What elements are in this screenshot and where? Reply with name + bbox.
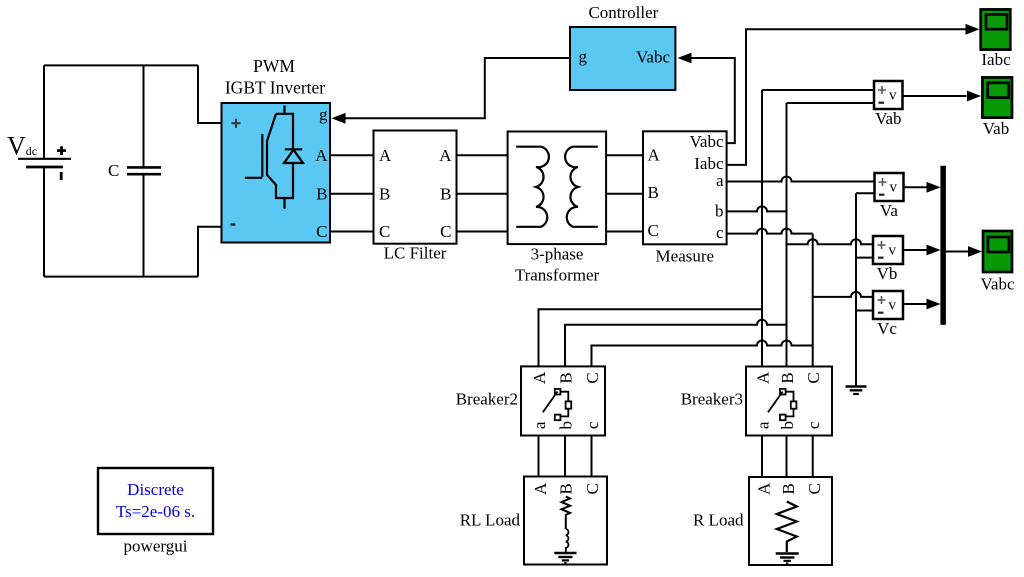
svg-text:Vb: Vb <box>877 264 898 283</box>
svg-text:powergui: powergui <box>124 537 188 556</box>
RL load inductor <box>566 529 569 552</box>
wire: breaker3 a to R load A <box>761 436 763 478</box>
IGBT symbol inside inverter <box>245 106 293 209</box>
wire: inverter A to LC filter A <box>330 154 374 156</box>
svg-text:b: b <box>557 421 576 430</box>
Breaker2 block <box>521 366 605 435</box>
mux bus bar <box>940 166 946 325</box>
arrowhead into Vab scope <box>967 91 981 102</box>
wire: DC bus top rail <box>44 64 198 66</box>
breaker2 switch symbol <box>543 389 571 420</box>
svg-text:Vabc: Vabc <box>981 275 1015 294</box>
svg-text:c: c <box>716 223 724 242</box>
wire: phase a to Vab plus <box>762 89 874 91</box>
svg-text:C: C <box>108 161 119 180</box>
wire: Vc minus lead <box>856 310 873 312</box>
svg-text:Iabc: Iabc <box>981 50 1011 69</box>
wire: transformer C to measure C <box>606 231 643 233</box>
breaker3 switch symbol <box>768 389 796 420</box>
voltage measurement Vab <box>874 81 903 109</box>
wire: phase b riser <box>786 103 788 367</box>
svg-text:A: A <box>648 146 661 165</box>
Controller block <box>570 27 675 90</box>
R load ground <box>776 554 799 564</box>
svg-text:Breaker3: Breaker3 <box>681 390 743 409</box>
wire: phase c riser <box>812 234 814 367</box>
wire: breaker2 A feed from phase a riser <box>539 309 763 366</box>
capacitor C <box>127 167 161 174</box>
svg-text:B: B <box>648 183 659 202</box>
scope Vabc <box>983 231 1012 272</box>
svg-text:C: C <box>379 222 390 241</box>
svg-text:A: A <box>439 146 452 165</box>
voltage measurement Va <box>875 173 904 201</box>
wire: Vab output to Vab scope <box>902 95 966 97</box>
wire: Vc output to mux <box>903 303 928 305</box>
svg-text:Vc: Vc <box>877 319 897 338</box>
svg-text:g: g <box>579 47 588 66</box>
DC voltage source Vdc <box>18 146 71 180</box>
svg-text:LC Filter: LC Filter <box>384 244 447 263</box>
svg-text:Vab: Vab <box>983 119 1009 138</box>
wire: Va output to mux <box>904 186 929 188</box>
svg-text:C: C <box>440 222 451 241</box>
svg-text:Vabc: Vabc <box>690 132 724 151</box>
arrowhead Vc into mux <box>927 299 941 310</box>
wire: phase b to Vab minus <box>787 102 875 104</box>
arrowhead into inverter g <box>332 113 346 124</box>
wire: phase a from measure to Va plus (hop over phase b riser) <box>727 177 875 182</box>
arrowhead Va into mux <box>927 182 941 193</box>
svg-text:a: a <box>754 421 773 429</box>
wire: battery bottom lead <box>43 168 45 277</box>
primary winding <box>516 147 549 227</box>
svg-text:PWM: PWM <box>253 56 295 76</box>
svg-text:c: c <box>583 421 602 429</box>
wire: breaker2 b to RL load B <box>564 436 566 477</box>
wire: capacitor bottom lead <box>143 175 145 277</box>
wire: phase c branch to Vc plus (hop over ground riser) <box>813 292 873 297</box>
wire: to inverter + terminal <box>198 65 222 123</box>
arrowhead into controller Vabc <box>678 53 692 64</box>
RL load ground <box>554 553 576 563</box>
svg-text:a: a <box>716 171 724 190</box>
R load resistor <box>777 502 797 553</box>
Breaker3 block <box>746 367 832 436</box>
svg-text:B: B <box>778 372 797 383</box>
voltage measurement Vb <box>873 236 903 264</box>
svg-text:A: A <box>315 146 328 165</box>
R Load block <box>749 477 832 565</box>
scope Vab <box>982 77 1012 117</box>
wire: breaker3 c to R load C <box>812 436 814 478</box>
wire: inverter C to LC filter C <box>330 231 374 233</box>
diode inside inverter <box>284 149 303 163</box>
svg-text:B: B <box>440 185 451 204</box>
svg-text:3-phase: 3-phase <box>531 245 584 264</box>
wire: breaker2 c to RL load C <box>591 436 593 477</box>
svg-text:A: A <box>531 482 550 495</box>
wire: mux output to Vabc scope <box>946 251 970 253</box>
wire: controller g output to inverter gate <box>344 58 570 118</box>
svg-text:IGBT Inverter: IGBT Inverter <box>225 78 325 98</box>
powergui block <box>98 468 213 534</box>
3-phase Transformer block <box>508 132 606 245</box>
svg-text:A: A <box>754 371 773 384</box>
PWM IGBT Inverter block <box>222 103 331 243</box>
svg-text:C: C <box>648 221 659 240</box>
wire: breaker2 B feed from phase b riser (hop over a riser) <box>565 320 787 367</box>
svg-text:Vab: Vab <box>875 109 901 128</box>
svg-text:g: g <box>319 105 328 124</box>
svg-text:B: B <box>557 372 576 383</box>
wire: to inverter - terminal <box>198 227 222 277</box>
svg-text:Vabc: Vabc <box>636 48 670 67</box>
svg-text:v: v <box>889 243 897 259</box>
wire: capacitor top lead <box>143 65 145 166</box>
svg-text:B: B <box>779 483 798 494</box>
svg-text:Breaker2: Breaker2 <box>456 390 518 409</box>
wire: measure Vabc output up to controller <box>691 58 735 143</box>
svg-text:RL Load: RL Load <box>460 511 521 530</box>
wire: transformer A to measure A <box>606 154 643 156</box>
svg-text:Discrete: Discrete <box>127 480 184 499</box>
svg-text:Measure: Measure <box>656 247 715 266</box>
wire: LC filter B to transformer B <box>457 193 508 195</box>
arrowhead into Vabc scope <box>968 246 982 257</box>
wire: Vb minus lead <box>856 257 873 259</box>
svg-text:v: v <box>889 88 897 104</box>
wire: battery top lead <box>43 65 45 158</box>
svg-text:b: b <box>715 202 724 221</box>
svg-text:a: a <box>530 421 549 429</box>
voltage measurement Vc <box>873 291 903 319</box>
svg-text:Va: Va <box>880 201 898 220</box>
svg-text:c: c <box>804 421 823 429</box>
wire: transformer B to measure B <box>606 193 643 195</box>
svg-text:C: C <box>805 483 824 494</box>
RL load resistor <box>562 497 571 530</box>
svg-text:C: C <box>804 372 823 383</box>
wire: Va minus lead <box>856 192 875 194</box>
svg-text:C: C <box>316 222 327 241</box>
wire: phase a riser <box>761 90 763 367</box>
wire: measure Iabc output to Iabc scope <box>727 29 967 165</box>
wire: LC filter C to transformer C <box>457 231 508 233</box>
arrowhead Vb into mux <box>927 245 941 256</box>
scope Iabc <box>981 9 1011 49</box>
svg-text:A: A <box>530 371 549 384</box>
svg-text:B: B <box>379 185 390 204</box>
svg-text:Controller: Controller <box>588 3 658 22</box>
svg-text:A: A <box>379 146 392 165</box>
svg-text:R Load: R Load <box>693 511 744 530</box>
secondary winding <box>565 147 598 227</box>
RL Load block <box>524 477 607 565</box>
wire: ground riser <box>855 193 857 385</box>
wire: Vb output to mux <box>903 249 928 251</box>
svg-text:Transformer: Transformer <box>515 266 600 285</box>
wire: phase b from measure to riser (hop over phase a riser) <box>727 206 787 211</box>
arrowhead into Iabc scope <box>966 24 980 35</box>
wire: DC bus bottom rail <box>44 276 198 278</box>
wire: breaker2 a to RL load A <box>538 436 540 477</box>
svg-text:b: b <box>778 421 797 430</box>
wire: phase b branch to Vb plus (hops over c riser and ground riser) <box>787 239 874 244</box>
svg-text:A: A <box>755 482 774 495</box>
wire: breaker3 b to R load B <box>786 436 788 478</box>
ground symbol (measurement reference) <box>846 387 867 395</box>
svg-text:Ts=2e-06 s.: Ts=2e-06 s. <box>116 502 195 521</box>
LC Filter block <box>374 131 457 244</box>
svg-text:v: v <box>889 298 897 314</box>
wire: phase c from measure to riser (hops over a and b risers) <box>727 229 813 234</box>
wire: breaker2 C feed from phase c riser (hops over a and b risers) <box>592 341 813 367</box>
svg-text:v: v <box>890 180 898 196</box>
svg-text:C: C <box>583 372 602 383</box>
svg-text:B: B <box>316 185 327 204</box>
Measure block <box>643 131 727 244</box>
wire: LC filter A to transformer A <box>457 154 508 156</box>
svg-text:B: B <box>557 483 576 494</box>
wire: inverter B to LC filter B <box>330 193 374 195</box>
svg-text:C: C <box>583 483 602 494</box>
